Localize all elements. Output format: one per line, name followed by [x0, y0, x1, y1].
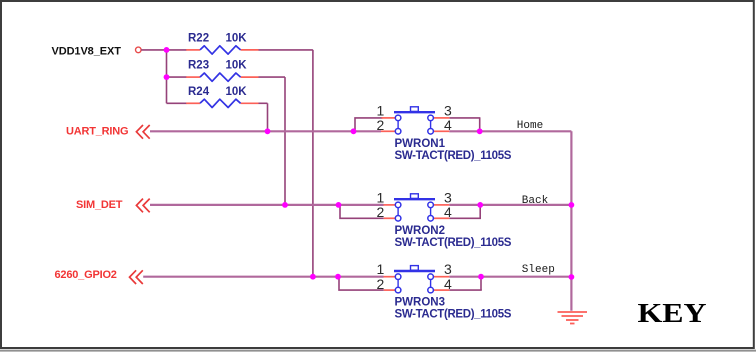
wire switch2 left stub	[340, 205, 384, 218]
node UART_RING chevron	[136, 125, 143, 139]
switch PWRON1 pin3 lead	[434, 117, 450, 119]
svg-text:1: 1	[377, 261, 385, 277]
junction switch2 left	[336, 202, 342, 208]
svg-text:Sleep: Sleep	[522, 264, 555, 276]
svg-text:VDD1V8_EXT: VDD1V8_EXT	[52, 46, 122, 58]
switch PWRON1 pin4 lead	[434, 130, 450, 132]
junction R23-row2	[282, 202, 288, 208]
junction bus-row2	[569, 202, 575, 208]
svg-text:SW-TACT(RED)_1105S: SW-TACT(RED)_1105S	[395, 237, 512, 249]
border frame	[0, 350, 756, 352]
switch PWRON1	[377, 102, 512, 161]
wire switch3 left stub	[339, 277, 384, 290]
svg-text:4: 4	[444, 204, 452, 220]
resistor R22 body	[200, 46, 241, 54]
svg-text:6260_GPIO2: 6260_GPIO2	[55, 269, 117, 281]
wire R22 right to vertical	[259, 49, 313, 51]
switch PWRON3 button	[411, 266, 419, 271]
resistor R1 leads (R22)	[186, 49, 200, 51]
junction switch3 left	[335, 274, 341, 280]
wire R24 left	[167, 102, 187, 104]
switch PWRON3 pole links	[397, 277, 399, 290]
wire R24 right to vertical	[259, 102, 268, 104]
svg-text:1: 1	[377, 189, 385, 205]
svg-text:SW-TACT(RED)_1105S: SW-TACT(RED)_1105S	[395, 309, 512, 321]
svg-text:3: 3	[444, 102, 452, 118]
switch PWRON2 actuator bar	[394, 198, 435, 200]
wire VDD circle to junction and R22 lead	[141, 49, 186, 51]
resistor R23 leads	[186, 76, 200, 78]
svg-text:KEY: KEY	[638, 299, 707, 328]
wire switch3 right vertical	[480, 277, 482, 290]
junction switch1 right	[477, 128, 483, 134]
junction switch1 left	[351, 128, 357, 134]
switch PWRON2 pin circles	[395, 202, 401, 208]
switch PWRON1 button	[411, 107, 419, 112]
junction VDD-R22	[164, 47, 170, 53]
switch PWRON2 pole links	[397, 205, 399, 218]
svg-text:2: 2	[377, 204, 385, 220]
wire switch2 right vertical	[479, 205, 481, 218]
switch PWRON3 pin2 lead	[384, 289, 395, 291]
junction switch3 right	[478, 274, 484, 280]
resistor R23 body	[200, 73, 241, 81]
switch PWRON3 actuator bar	[394, 270, 435, 272]
svg-text:2: 2	[377, 117, 385, 133]
switch PWRON2 pin2 lead	[384, 217, 395, 219]
svg-text:10K: 10K	[226, 60, 248, 72]
svg-text:2: 2	[377, 276, 385, 292]
switch PWRON3 pin4 lead	[434, 289, 450, 291]
svg-text:PWRON2: PWRON2	[395, 225, 445, 237]
switch PWRON1 pin1 lead	[382, 117, 396, 119]
wire row1 main right	[449, 130, 571, 132]
switch PWRON3 pin1 lead	[384, 276, 396, 278]
svg-text:1: 1	[377, 102, 385, 118]
wire R23 right to vertical	[259, 76, 286, 78]
resistor R24 leads	[186, 102, 200, 104]
wire switch2 pin4 right	[449, 217, 481, 219]
switch PWRON2 button	[411, 194, 419, 199]
node 6260_GPIO2 chevron	[130, 270, 137, 284]
svg-text:R23: R23	[188, 60, 209, 72]
wire right bus vertical	[570, 131, 572, 310]
junction VDD-R23	[164, 74, 170, 80]
wire R23 vertical down to row2	[284, 77, 286, 205]
svg-text:PWRON1: PWRON1	[395, 138, 446, 150]
wire row1 main left	[150, 130, 381, 132]
svg-text:4: 4	[444, 276, 452, 292]
switch PWRON1 actuator bar	[394, 111, 435, 113]
wire row3 main right	[449, 276, 571, 278]
switch PWRON1 pin circles	[395, 115, 401, 121]
wire vertical VDD junction down to R24 row	[166, 50, 168, 103]
junction R24-row1	[265, 128, 271, 134]
wire row2 main left	[150, 204, 384, 206]
junction switch2 right	[477, 202, 483, 208]
switch PWRON3 pin3 lead	[434, 276, 450, 278]
svg-text:4: 4	[444, 117, 452, 133]
junction bus-row3	[569, 274, 575, 280]
wire switch3 pin4 right	[449, 289, 482, 291]
wire R24 vertical down to row1	[267, 103, 269, 131]
svg-text:Back: Back	[522, 195, 549, 207]
svg-text:SIM_DET: SIM_DET	[76, 199, 123, 211]
wire R22 vertical down to row3	[312, 50, 314, 277]
svg-text:SW-TACT(RED)_1105S: SW-TACT(RED)_1105S	[395, 150, 512, 162]
wire row3 main left	[143, 276, 383, 278]
svg-text:R24: R24	[188, 86, 210, 98]
svg-text:10K: 10K	[226, 86, 248, 98]
switch PWRON2 pin3 lead	[434, 204, 450, 206]
svg-text:UART_RING: UART_RING	[66, 125, 128, 137]
resistor R24 body	[200, 99, 241, 107]
node SIM_DET chevron	[136, 199, 143, 213]
switch PWRON3 pin circles	[395, 274, 401, 280]
wire switch1 left stub	[355, 118, 383, 131]
switch PWRON3	[377, 261, 512, 320]
wire R23 left	[167, 76, 187, 78]
switch PWRON2	[377, 189, 512, 249]
svg-text:Home: Home	[517, 120, 543, 132]
svg-text:R22: R22	[188, 32, 209, 44]
svg-text:10K: 10K	[226, 32, 248, 44]
switch PWRON1 pole links	[397, 118, 399, 131]
svg-text:3: 3	[444, 189, 452, 205]
switch PWRON1 pin2 lead	[381, 130, 395, 132]
svg-text:PWRON3: PWRON3	[395, 296, 445, 308]
wire row2 main right	[449, 204, 571, 206]
node VDD1V8_EXT open-circle terminal	[136, 47, 142, 53]
svg-text:3: 3	[444, 261, 452, 277]
switch PWRON2 pin4 lead	[434, 217, 450, 219]
wire switch1 right vertical	[479, 118, 481, 131]
ground	[558, 312, 588, 324]
junction R22-row3	[310, 274, 316, 280]
switch PWRON2 pin1 lead	[384, 204, 396, 206]
wire switch1 pin3 right	[449, 117, 480, 119]
